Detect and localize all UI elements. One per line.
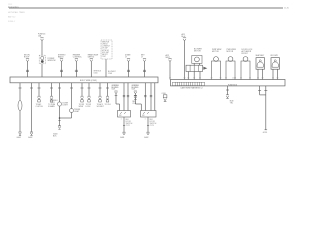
wire C3 to bus	[75, 62, 77, 77]
svg-text:C561: C561	[51, 102, 55, 104]
wire C406 to fuse box	[169, 62, 171, 80]
svg-text:GRN/RED: GRN/RED	[112, 85, 120, 87]
svg-text:BLU: BLU	[182, 36, 186, 38]
svg-text:GRN/RED: GRN/RED	[132, 85, 140, 87]
ground G402	[147, 131, 150, 133]
connector C406	[168, 59, 171, 62]
svg-text:C520: C520	[232, 78, 236, 80]
svg-text:22-30: 22-30	[284, 8, 289, 10]
splice ticks C1	[26, 69, 29, 71]
wire stub under fuse box	[227, 86, 229, 95]
svg-text:SW: SW	[142, 115, 145, 117]
svg-text:DEFOG: DEFOG	[88, 57, 95, 59]
wire key-in buzzer leg 1	[272, 69, 274, 79]
relay dashed box	[39, 55, 45, 64]
switch box	[118, 111, 131, 118]
window motor right motor	[228, 57, 233, 62]
splice ticks C3	[75, 69, 78, 71]
wire switch to ground	[147, 117, 149, 132]
wire motor pins	[193, 63, 195, 65]
wire C6 to bus	[128, 62, 130, 77]
window motor left frame	[212, 61, 221, 80]
svg-text:22-13 22-1: 22-13 22-1	[8, 7, 19, 9]
svg-text:SOCKET: SOCKET	[97, 106, 105, 108]
svg-text:ROOF: ROOF	[24, 57, 30, 59]
door lock actuator frame	[241, 61, 250, 80]
svg-text:1: 1	[121, 118, 122, 120]
wire key-in buzzer leg 2	[277, 69, 279, 79]
wire trunk light down	[71, 113, 73, 119]
wire to dome light	[59, 83, 61, 102]
svg-text:LIGHT: LIGHT	[74, 111, 80, 113]
wire switch input 4	[154, 83, 156, 111]
wire switch input 1	[134, 94, 136, 104]
wire C1 to bus	[27, 62, 29, 77]
resistor block	[186, 65, 203, 71]
key-in buzzer body	[271, 58, 280, 69]
wire to ground G402	[31, 83, 33, 132]
svg-text:BLU/RED: BLU/RED	[132, 87, 140, 89]
ground G401	[123, 131, 126, 133]
svg-text:G402: G402	[28, 137, 32, 139]
relay coil	[41, 56, 44, 59]
wire C2 to bus	[61, 62, 63, 77]
blower motor box	[192, 56, 202, 64]
ground G403	[58, 125, 61, 127]
connector C1	[26, 59, 29, 62]
wire C4 to bus	[90, 62, 92, 77]
svg-text:LT: LT	[141, 57, 144, 59]
svg-text:KEY BZR: KEY BZR	[271, 55, 279, 57]
svg-text:C560: C560	[94, 73, 98, 75]
window motor right frame	[226, 61, 235, 80]
svg-text:BLK: BLK	[53, 136, 57, 138]
svg-text:C573: C573	[150, 125, 154, 127]
junction dot	[59, 117, 61, 119]
wire to gauge lamp	[19, 83, 21, 101]
svg-text:SEAT BELT: SEAT BELT	[256, 54, 265, 57]
connector C3	[75, 59, 78, 62]
bus bar body wire harness	[10, 77, 158, 83]
seat belt buzzer body	[256, 58, 265, 69]
connector C7	[143, 59, 146, 62]
power rail hot at all times	[9, 7, 283, 9]
fuse connector	[40, 38, 43, 41]
wire seat belt buzzer leg 2	[262, 69, 264, 79]
wire resistor leg 3	[199, 72, 201, 80]
ground G401	[19, 131, 22, 133]
connector stub arrow	[226, 95, 229, 98]
svg-text:TO CLK: TO CLK	[105, 104, 112, 106]
svg-text:CONTROL: CONTROL	[73, 57, 82, 59]
wire stub TO CLK	[107, 83, 109, 96]
connector C6	[127, 59, 130, 62]
door lock actuator motor	[243, 57, 248, 62]
svg-text:G401: G401	[17, 137, 21, 139]
connector stub TO PGM	[50, 96, 53, 99]
wire switch input 2	[123, 83, 125, 111]
svg-text:G551: G551	[263, 132, 267, 134]
wire junction horizontal	[60, 117, 72, 119]
pin ticks at fuse box entries	[169, 77, 171, 79]
wire switch input 2	[144, 83, 146, 111]
connector stub TO RR	[81, 96, 84, 99]
splice ticks C2	[60, 69, 63, 71]
switch box	[141, 111, 157, 118]
ground G402	[30, 131, 33, 133]
wire switch to ground	[123, 117, 125, 132]
wire switch input 3	[150, 83, 152, 111]
wire ground join	[260, 94, 266, 96]
svg-text:1: 1	[145, 118, 146, 120]
ground G551	[265, 129, 268, 131]
wire to trunk light	[71, 83, 73, 109]
wire lamp to ground	[19, 111, 21, 132]
wire relay to bus	[41, 64, 43, 77]
svg-text:C567: C567	[102, 56, 106, 58]
svg-text:C571: C571	[112, 89, 116, 91]
connector into switch	[115, 91, 118, 94]
svg-text:BATT 22: BATT 22	[8, 15, 15, 18]
svg-text:MOTOR: MOTOR	[194, 51, 201, 53]
svg-text:G402: G402	[144, 137, 148, 139]
wire stub TO PGM	[51, 83, 53, 96]
wire note box to bus	[105, 59, 107, 77]
fuse box bar	[171, 80, 286, 86]
wire ground stub left	[259, 86, 261, 95]
svg-text:SW: SW	[119, 115, 122, 117]
wire resistor leg 2	[193, 72, 195, 80]
svg-text:G401: G401	[120, 137, 124, 139]
svg-text:C572: C572	[126, 125, 130, 127]
connector stub TO CLK	[106, 96, 109, 99]
svg-text:RADIO: RADIO	[58, 56, 64, 59]
connector C2	[60, 59, 63, 62]
connector stub TO A/C	[38, 96, 41, 99]
svg-text:BODY WIRE (C503): BODY WIRE (C503)	[80, 80, 97, 82]
wire to ground G551	[265, 95, 267, 130]
multi-pin connector hatch	[173, 82, 205, 85]
svg-text:FRONT: FRONT	[242, 53, 249, 55]
svg-text:HOT AT ALL TIMES: HOT AT ALL TIMES	[8, 11, 25, 14]
wire ground stub right	[265, 86, 267, 95]
dome light bulb	[57, 102, 61, 106]
splice ticks C7	[143, 69, 146, 71]
svg-text:LIGHT: LIGHT	[63, 104, 69, 106]
stub between switch blocks	[134, 95, 137, 98]
wire stub TO RR	[81, 83, 83, 96]
wire C7 to bus	[144, 62, 146, 77]
wire switch input 3	[127, 83, 129, 111]
svg-text:CLUTCH: CLUTCH	[36, 106, 44, 108]
svg-text:BLU/RED: BLU/RED	[112, 87, 120, 89]
svg-text:FUSE BOX: FUSE BOX	[228, 84, 238, 86]
wire dome light to junction	[59, 106, 61, 125]
relay contact	[41, 60, 44, 63]
wire stub TO DR	[88, 83, 90, 96]
svg-text:MOTOR: MOTOR	[227, 51, 234, 53]
connector stub TO ACC	[99, 96, 102, 99]
svg-text:C568: C568	[108, 73, 112, 75]
svg-text:LOCK: LOCK	[86, 106, 92, 108]
window motor left motor	[214, 57, 219, 62]
blower motor M1	[195, 57, 200, 62]
svg-text:YEL: YEL	[230, 102, 233, 104]
wire switch input 1	[115, 94, 117, 104]
arrow tag next page	[203, 67, 207, 70]
svg-text:C571: C571	[132, 89, 136, 91]
svg-text:WINDOW: WINDOW	[48, 60, 56, 62]
wire fuse to relay	[41, 41, 43, 55]
svg-text:FI MAIN: FI MAIN	[48, 105, 55, 108]
wire stub TO ACC	[99, 83, 101, 96]
wire seat belt buzzer leg 1	[257, 69, 259, 79]
wire resistor leg 1	[187, 72, 189, 80]
svg-text:MOTOR: MOTOR	[212, 51, 219, 53]
svg-text:22-13: 22-13	[8, 4, 12, 6]
connector C4	[90, 59, 93, 62]
splice ticks C6	[127, 69, 130, 71]
connector C405	[183, 38, 186, 41]
svg-text:LT: LT	[125, 57, 128, 59]
connector stub TO DR	[88, 96, 91, 99]
connector into switch	[134, 91, 137, 94]
svg-text:FUSE 4: FUSE 4	[8, 21, 15, 23]
svg-text:WDW: WDW	[79, 106, 84, 108]
note box service check	[101, 40, 112, 59]
lamp L1	[18, 101, 22, 111]
trunk light bulb	[70, 109, 74, 113]
wire C405 to fuse box	[184, 41, 186, 80]
wire stub TO A/C	[38, 83, 40, 96]
svg-text:DASH WIRE HARNESS C2: DASH WIRE HARNESS C2	[181, 87, 203, 90]
